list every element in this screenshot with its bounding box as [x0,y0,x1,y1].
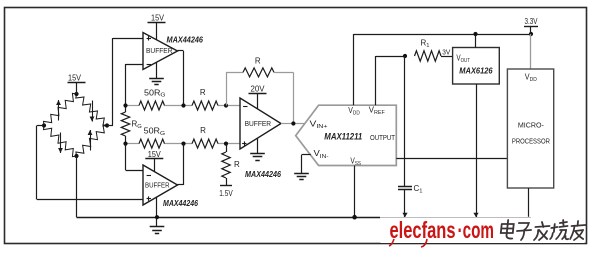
svg-text:·com: ·com [458,217,495,243]
svg-text:BUFFER: BUFFER [245,119,272,128]
svg-text:20V: 20V [251,84,266,93]
svg-text:MAX44246: MAX44246 [245,169,281,179]
svg-text:BUFFER: BUFFER [145,181,170,190]
svg-text:OUTPUT: OUTPUT [370,133,395,142]
svg-text:MAX44246: MAX44246 [167,35,204,45]
svg-text:15V: 15V [151,14,165,23]
svg-text:R: R [255,56,261,65]
svg-text:15V: 15V [148,150,162,159]
svg-text:R: R [200,88,206,97]
svg-text:1.5V: 1.5V [219,189,233,198]
svg-text:MAX6126: MAX6126 [459,65,493,75]
svg-text:3V: 3V [442,47,450,56]
svg-text:PROCESSOR: PROCESSOR [512,137,550,146]
svg-text:elecfans: elecfans [390,217,456,243]
svg-text:MICRO-: MICRO- [518,120,545,129]
svg-text:R: R [234,160,240,169]
svg-text:MAX44246: MAX44246 [163,198,198,208]
svg-text:3.3V: 3.3V [525,17,539,26]
svg-text:R: R [200,126,206,135]
svg-text:MAX11211: MAX11211 [324,131,362,141]
svg-text:15V: 15V [68,74,82,83]
svg-text:BUFFER: BUFFER [146,46,173,55]
